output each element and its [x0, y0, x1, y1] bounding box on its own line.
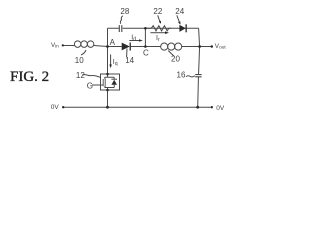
svg-text:22: 22 — [153, 7, 162, 16]
svg-text:14: 14 — [125, 56, 134, 65]
svg-text:Vin: Vin — [51, 42, 59, 49]
svg-text:A: A — [110, 38, 116, 47]
svg-text:G: G — [87, 81, 93, 90]
svg-text:0V: 0V — [51, 104, 60, 111]
svg-text:Vout: Vout — [215, 43, 227, 51]
svg-text:10: 10 — [75, 56, 84, 65]
svg-text:12: 12 — [76, 71, 85, 80]
svg-text:Id: Id — [131, 34, 136, 42]
svg-text:Ir: Ir — [156, 35, 160, 43]
svg-text:0V: 0V — [216, 105, 225, 112]
svg-text:16: 16 — [177, 71, 186, 80]
svg-text:28: 28 — [120, 7, 129, 16]
svg-text:C: C — [143, 49, 149, 58]
svg-text:Iq: Iq — [113, 59, 118, 67]
svg-text:20: 20 — [171, 54, 180, 63]
svg-text:FIG. 2: FIG. 2 — [10, 69, 49, 85]
svg-text:24: 24 — [175, 7, 184, 16]
